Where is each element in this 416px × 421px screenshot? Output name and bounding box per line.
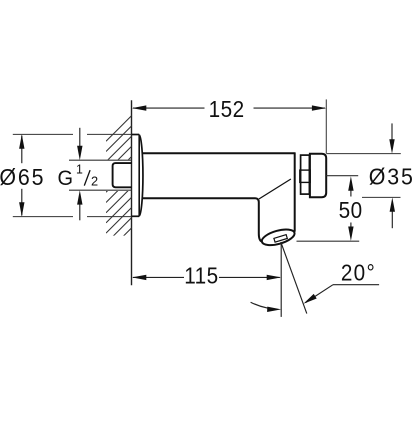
- svg-text:Ø65: Ø65: [0, 164, 45, 190]
- svg-text:152: 152: [209, 96, 245, 122]
- dim G1/2 arrows: [77, 128, 82, 221]
- dim 115 line: [132, 275, 281, 280]
- 20deg leader line: [303, 285, 379, 304]
- svg-text:50: 50: [339, 197, 363, 223]
- 20deg angle arc with arrow: [251, 302, 282, 312]
- wall hatching: [106, 114, 134, 264]
- hex nut: [300, 155, 310, 194]
- outlet extension line: [297, 240, 360, 242]
- svg-text:Ø35: Ø35: [369, 164, 415, 190]
- dim 152 extension line right: [325, 99, 327, 153]
- svg-text:115: 115: [184, 262, 218, 288]
- dim 152 line: [132, 105, 326, 110]
- dim Ø35 arrows: [389, 123, 395, 228]
- dim 50 line and arrows: [348, 176, 353, 241]
- wall hole edge / G1/2 extension line top: [69, 159, 132, 161]
- 20deg vertical reference line: [280, 244, 282, 317]
- spout outlet rim: [260, 226, 296, 248]
- flange (escutcheon): [132, 135, 143, 217]
- dim Ø35 extension lines: [326, 154, 401, 198]
- push button Ø35: [310, 154, 326, 198]
- axis extension line: [326, 175, 358, 177]
- threaded inlet nipple G1/2: [113, 163, 132, 187]
- svg-text:20°: 20°: [341, 259, 376, 285]
- head chamfer edge: [259, 179, 291, 199]
- spout head: [256, 198, 263, 241]
- faucet body tube: [143, 153, 295, 198]
- dim Ø65 extension lines: [13, 134, 132, 216]
- svg-text:1: 1: [76, 162, 83, 176]
- body end plate / head right edge: [294, 152, 296, 231]
- wall hole edge / G1/2 extension line bottom: [69, 189, 132, 191]
- svg-text:G: G: [58, 167, 74, 191]
- dim Ø65 line and arrows: [19, 134, 24, 216]
- svg-text:2: 2: [91, 174, 98, 189]
- wall line: [131, 100, 133, 285]
- dim G1/2 text: [58, 162, 99, 190]
- aerator insert in outlet: [274, 235, 287, 243]
- 20deg slanted line: [281, 242, 307, 314]
